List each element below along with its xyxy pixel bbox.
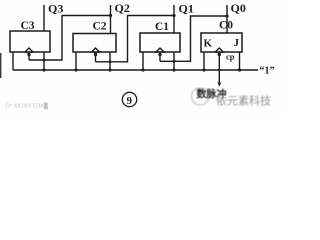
svg-text:cp: cp bbox=[226, 52, 235, 62]
flip-flop C2 bbox=[73, 34, 116, 53]
clock wedge C3 bbox=[25, 48, 33, 52]
wire Q2 to C3 clock bbox=[29, 16, 111, 61]
crossing blob J3 x clock bbox=[43, 59, 46, 62]
wire Q3 output bbox=[43, 5, 45, 31]
junction dot J2 on rail bbox=[108, 68, 111, 71]
svg-text:C1: C1 bbox=[155, 21, 169, 33]
junction dot C3 clock bbox=[27, 53, 30, 56]
svg-text:C2: C2 bbox=[93, 21, 107, 33]
junction dot C2 clock bbox=[94, 53, 97, 56]
wire J stub C1 bbox=[173, 52, 175, 70]
svg-text:9: 9 bbox=[127, 95, 133, 107]
wire C2 clock stub bbox=[95, 52, 97, 62]
clock wedge C0 bbox=[215, 48, 223, 52]
junction dot J0 on rail bbox=[238, 68, 241, 71]
svg-text:Q3: Q3 bbox=[48, 2, 63, 16]
crossing blob J2 x clock bbox=[109, 60, 112, 63]
wire Q1 to C2 clock bbox=[96, 16, 175, 62]
wire Q0 to C1 clock bbox=[160, 16, 227, 61]
CP arrowhead bbox=[217, 83, 221, 87]
svg-text:Q0: Q0 bbox=[231, 1, 246, 15]
clock wedge C1 bbox=[156, 48, 164, 52]
wire K stub C0 bbox=[203, 52, 205, 70]
svg-text:Dᵒ XILINX EDA█: Dᵒ XILINX EDA█ bbox=[6, 103, 48, 110]
wire Q1 output bbox=[173, 5, 175, 33]
wire K stub C1 bbox=[142, 52, 144, 70]
flip-flop C3 bbox=[10, 31, 50, 52]
svg-text:“1”: “1” bbox=[260, 66, 275, 77]
svg-text:C0: C0 bbox=[219, 20, 233, 32]
junction dot C1 clock bbox=[158, 53, 161, 56]
junction dot Q2 branch bbox=[109, 14, 112, 17]
wire Q2 output bbox=[110, 5, 112, 34]
svg-text:Q2: Q2 bbox=[115, 1, 130, 15]
figure number 9 circled bbox=[122, 92, 136, 107]
svg-text:Q1: Q1 bbox=[179, 1, 194, 15]
wire J stub C3 bbox=[43, 52, 45, 70]
clock wedge C2 bbox=[92, 48, 100, 52]
wire K stub C3 bbox=[12, 52, 14, 70]
flip-flop C0 bbox=[201, 33, 242, 52]
crossing blob CP x rail bbox=[218, 69, 221, 72]
junction dot J3 on rail bbox=[42, 68, 45, 71]
svg-text:J: J bbox=[234, 37, 240, 49]
wire logic-1 rail bbox=[13, 69, 258, 71]
junction dot K2 on rail bbox=[74, 68, 77, 71]
junction dot K0 on rail bbox=[202, 68, 205, 71]
flip-flop C1 bbox=[140, 33, 180, 52]
svg-text:K: K bbox=[204, 38, 213, 50]
svg-text:C3: C3 bbox=[21, 20, 35, 32]
svg-text:依元素科技: 依元素科技 bbox=[216, 94, 271, 108]
wire C1 clock stub bbox=[159, 52, 161, 61]
wire CP input to C0 clock bbox=[218, 52, 220, 84]
wire C3 clock stub bbox=[28, 52, 30, 60]
wire J stub C2 bbox=[109, 52, 111, 70]
scan streak left edge bbox=[0, 53, 2, 78]
junction dot Q0 branch bbox=[225, 14, 228, 17]
junction dot C0 clock bbox=[218, 53, 221, 56]
junction dot J1 on rail bbox=[172, 68, 175, 71]
junction dot K1 on rail bbox=[141, 68, 144, 71]
wire K stub C2 bbox=[75, 52, 77, 70]
watermark logo circle bbox=[192, 88, 209, 105]
crossing blob J1 x clock bbox=[173, 60, 176, 63]
wire J stub C0 bbox=[239, 52, 241, 70]
wire Q0 output bbox=[226, 5, 228, 33]
junction dot Q1 branch bbox=[172, 14, 175, 17]
